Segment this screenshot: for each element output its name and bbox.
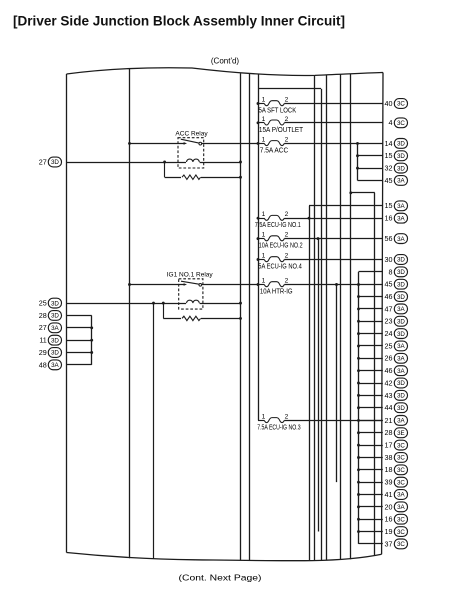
svg-text:3A: 3A (51, 325, 59, 332)
svg-text:30: 30 (385, 255, 393, 264)
svg-text:10A HTR-IG: 10A HTR-IG (260, 287, 293, 296)
fuse 10A ECU-IG NO.2 (258, 232, 303, 250)
node ACC switch on bus (128, 142, 131, 145)
pin 8 3D (right) (389, 267, 408, 277)
svg-text:16: 16 (385, 515, 393, 524)
svg-text:14: 14 (385, 139, 393, 148)
svg-text:3C: 3C (397, 467, 405, 474)
node fuse feed NO.1 (257, 217, 260, 220)
wire rung pin 15 3D (358, 155, 383, 157)
node rung 15 3D (356, 154, 359, 157)
node ACC fuse feed crossing (257, 142, 260, 145)
wire rung pin 17 3C (359, 445, 383, 447)
svg-text:3A: 3A (397, 418, 405, 425)
wire vertical mid V4 x321.1 (321, 89, 323, 561)
pin 25 3D (left) (39, 298, 62, 308)
wire ACC relay coil output (200, 162, 241, 164)
svg-text:3A: 3A (397, 343, 405, 350)
svg-text:3D: 3D (397, 141, 405, 148)
svg-text:7.5A ACC: 7.5A ACC (260, 145, 289, 154)
pin 26 3A (right) (385, 353, 408, 363)
pin 16 3C (right) (385, 514, 408, 524)
svg-text:26: 26 (385, 354, 393, 363)
node fuse feed NO.4 (257, 258, 260, 261)
pin 46 3A (right) (385, 366, 408, 376)
wire vertical mid V3 x318 (318, 239, 320, 532)
wire IG1 relay switch input (130, 284, 185, 286)
node ladder junction 43 3D (357, 394, 360, 397)
node ACC resistor to bus (239, 176, 242, 179)
svg-text:37: 37 (385, 539, 393, 548)
wire rung pin 25 3A (359, 345, 383, 347)
node IG1 coil branch (162, 302, 165, 305)
node HTR-IG fuse feed crossing (257, 283, 260, 286)
svg-text:[Driver Side Junction Block As: [Driver Side Junction Block Assembly Inn… (13, 14, 345, 29)
fuse 5A ECU-IG NO.4 (258, 253, 302, 271)
pin 48 3A (left) (39, 360, 62, 370)
wire rung pin 46 3A (359, 370, 383, 372)
wire vertical mid V2 x314.9 (pass-through) (314, 75, 316, 560)
svg-text:38: 38 (385, 453, 393, 462)
wire IG1 relay coil input (pin 25 3D) (67, 303, 187, 305)
svg-text:3D: 3D (397, 393, 405, 400)
node fuse feed SFT LOCK (257, 102, 260, 105)
node ACC coil to bus (239, 161, 242, 164)
wire ACC fuse output to pin 14 (284, 143, 383, 145)
wire jog horizontal y192.8 (351, 192, 375, 194)
svg-text:3D: 3D (397, 380, 405, 387)
pin 47 3A (right) (385, 304, 408, 314)
wire vertical mid V6 x336.5 (336, 285, 338, 483)
pin 28 3D (left) (39, 311, 62, 321)
wire left bracket bus (91, 315, 93, 364)
svg-text:3D: 3D (51, 300, 59, 307)
node pin 25 wire pass-through junction (152, 302, 155, 305)
resistor IG1 relay (182, 316, 201, 320)
svg-text:2: 2 (285, 232, 289, 239)
wire ACC resistor lead left (165, 177, 181, 179)
node ladder junction 25 3A (357, 345, 360, 348)
svg-text:3D: 3D (397, 281, 405, 288)
wire rung pin 37 3C (359, 543, 383, 545)
node ladder junction 24 3D (357, 332, 360, 335)
svg-text:3A: 3A (397, 203, 405, 210)
wire IG1 resistor lead right (201, 318, 241, 320)
wire IG1 resistor lead left (163, 318, 181, 320)
junction block outline (bottom edge, curved) (67, 553, 382, 561)
pin 42 3D (right) (385, 378, 408, 388)
node NO.2 branch V3 (317, 237, 320, 240)
svg-text:7.5A ECU-IG NO.3: 7.5A ECU-IG NO.3 (257, 422, 300, 431)
junction block outline (left edge) (66, 74, 68, 553)
wire HTR-IG output to pin 45 3D (284, 284, 383, 286)
node ladder junction 17 3C (357, 444, 360, 447)
node bracket 27 3A (90, 326, 93, 329)
wire rung pin 39 3C (359, 482, 383, 484)
svg-text:2: 2 (285, 97, 289, 104)
svg-text:3C: 3C (397, 479, 405, 486)
wire rung pin 18 3C (359, 469, 383, 471)
node IG1 resistor to bus (239, 317, 242, 320)
pin 46 3D (right) (385, 292, 408, 302)
svg-text:45: 45 (385, 280, 393, 289)
node ladder junction 38 3C (357, 456, 360, 459)
svg-text:(Cont. Next Page): (Cont. Next Page) (179, 573, 262, 583)
fuse 7.5A ACC (258, 136, 289, 154)
svg-text:3A: 3A (397, 178, 405, 185)
node ladder junction 46 3A (357, 369, 360, 372)
relay IG1 switch blade (181, 281, 199, 284)
wire pin 29 3D (67, 352, 92, 354)
svg-text:3D: 3D (397, 269, 405, 276)
pin 11 3D (left) (39, 335, 61, 345)
svg-text:1: 1 (262, 136, 266, 143)
fuse 5A SFT LOCK (258, 97, 296, 115)
svg-text:32: 32 (385, 164, 393, 173)
svg-text:27: 27 (39, 323, 47, 332)
svg-text:3D: 3D (397, 165, 405, 172)
svg-text:47: 47 (385, 304, 393, 313)
pin 18 3C (right) (385, 465, 408, 475)
svg-text:3D: 3D (397, 257, 405, 264)
pin 27 3A (left) (39, 323, 62, 333)
pin 23 3D (right) (385, 316, 408, 326)
svg-text:48: 48 (39, 360, 47, 369)
pin 15 3D (right) (385, 151, 408, 161)
svg-text:21: 21 (385, 416, 393, 425)
wire NO.4 output to pin 30 3D (284, 259, 383, 261)
wire fuse output to pin 40 (284, 103, 383, 105)
node ladder junction 42 3D (357, 382, 360, 385)
svg-text:23: 23 (385, 317, 393, 326)
wire fuse output to pin 4 (284, 122, 383, 124)
wire vertical mid V7 x340.9 (pass-through) (340, 74, 342, 560)
node ladder junction 16 3C (357, 518, 360, 521)
svg-text:3D: 3D (397, 153, 405, 160)
pin 28 3E (right) (385, 428, 408, 438)
wire rung pin 45 3A (358, 180, 383, 182)
relay ACC switch arrow (184, 142, 187, 145)
svg-text:3D: 3D (51, 313, 59, 320)
svg-text:1: 1 (262, 211, 266, 218)
wire rung pin 28 3E (359, 432, 383, 434)
node ladder junction 39 3C (357, 481, 360, 484)
wire vertical bus B3 (fuse feed bus) (258, 74, 260, 420)
wire pin 48 3A (67, 364, 92, 366)
pin 37 3C (right) (385, 539, 408, 549)
svg-text:16: 16 (385, 214, 393, 223)
node ladder junction HTR-IG row 45 3D (357, 283, 360, 286)
wire rung pin 42 3D (359, 383, 383, 385)
wire rung pin 32 3D (358, 168, 383, 170)
svg-text:42: 42 (385, 378, 393, 387)
pin 4 3C (right) (389, 118, 408, 128)
relay ACC coil (187, 159, 200, 162)
pin 40 3C (right) (385, 99, 408, 109)
svg-text:2: 2 (285, 136, 289, 143)
wire vertical right pass-through x374.8 (374, 193, 376, 556)
node ladder junction 46 3D (357, 295, 360, 298)
wire NO.3 output to pin 21 3A (284, 420, 383, 422)
wire vertical bus B2 (pass-through) (249, 74, 251, 561)
junction block outline (right edge) (382, 73, 383, 555)
svg-text:3C: 3C (397, 120, 405, 127)
pin 29 3D (left) (39, 348, 62, 358)
svg-text:3D: 3D (397, 294, 405, 301)
wire IG1 resistor branch vertical (163, 303, 165, 318)
svg-text:25: 25 (39, 299, 47, 308)
pin 38 3C (right) (385, 453, 408, 463)
wire rung pin 23 3D (359, 321, 383, 323)
wire rung pin 46 3D (359, 296, 383, 298)
svg-text:3C: 3C (397, 529, 405, 536)
wire pin 27 3A (67, 327, 92, 329)
wire rung pin 44 3D (359, 407, 383, 409)
wire rung pin 47 3A (359, 308, 383, 310)
wire top feed horizontal y88.9 (258, 88, 321, 90)
svg-text:39: 39 (385, 478, 393, 487)
junction block outline (top edge, curved) (67, 68, 384, 76)
svg-text:3D: 3D (397, 318, 405, 325)
svg-text:2: 2 (285, 278, 289, 285)
fuse 7.5A ECU-IG NO.1 (255, 211, 301, 229)
svg-text:3A: 3A (397, 492, 405, 499)
svg-text:46: 46 (385, 366, 393, 375)
wire vertical mid V5 x326.5 (pass-through) (326, 75, 328, 560)
fuse 10A HTR-IG (258, 278, 293, 296)
svg-text:7.5A ECU-IG NO.1: 7.5A ECU-IG NO.1 (255, 220, 301, 229)
svg-text:15: 15 (385, 151, 393, 160)
svg-text:2: 2 (285, 413, 289, 420)
svg-text:56: 56 (385, 234, 393, 243)
pin 19 3C (right) (385, 527, 408, 537)
node ladder junction 26 3A (357, 357, 360, 360)
svg-text:10A ECU-IG NO.2: 10A ECU-IG NO.2 (259, 241, 303, 250)
svg-text:1: 1 (262, 232, 266, 239)
svg-text:1: 1 (262, 278, 266, 285)
svg-text:3A: 3A (397, 368, 405, 375)
svg-text:20: 20 (385, 502, 393, 511)
pin 16 3A (right) (385, 213, 408, 223)
wire right ladder bus (358, 272, 360, 544)
pin 43 3D (right) (385, 390, 408, 400)
fuse 15A P/OUTLET (258, 116, 304, 134)
pin 45 3A (right) (385, 176, 408, 186)
svg-text:28: 28 (385, 428, 393, 437)
svg-text:3A: 3A (397, 504, 405, 511)
wire vertical bus (second from left, pass-through) (129, 68, 131, 558)
svg-text:5A ECU-IG NO.4: 5A ECU-IG NO.4 (258, 262, 302, 271)
wire rung pin 19 3C (359, 531, 383, 533)
svg-text:43: 43 (385, 391, 393, 400)
pin 56 3A (right) (385, 234, 408, 244)
wire rung pin 38 3C (359, 457, 383, 459)
node ladder junction 23 3D (357, 320, 360, 323)
relay IG1 switch contact (199, 283, 202, 286)
fuse 7.5A ECU-IG NO.3 (257, 413, 300, 431)
wire ACC relay switch input (130, 143, 185, 145)
wire ACC relay coil input (pin 27 3D) (67, 162, 187, 164)
svg-text:3C: 3C (397, 516, 405, 523)
wire pass-through from pin 25 wire x153.5 (153, 303, 155, 559)
wire rung pin 41 3A (359, 494, 383, 496)
svg-text:45: 45 (385, 176, 393, 185)
relay ACC switch blade (181, 139, 199, 143)
pin 14 3D (right) (385, 139, 408, 149)
pin 25 3A (right) (385, 341, 408, 351)
svg-text:2: 2 (285, 211, 289, 218)
node ladder junction 28 3E (357, 431, 360, 434)
relay IG1 coil (187, 300, 200, 303)
wire rung pin 8 3D (359, 271, 383, 273)
node NO.1 branch up (308, 217, 311, 220)
svg-text:8: 8 (389, 267, 393, 276)
node bracket 29 3D (90, 351, 93, 354)
svg-text:28: 28 (39, 311, 47, 320)
wire vertical bus B1 (relay coil return) (240, 74, 242, 561)
svg-text:3C: 3C (397, 101, 405, 108)
wire IG1 relay coil output (200, 303, 241, 305)
svg-text:11: 11 (39, 336, 46, 345)
node fuse feed P/OUTLET (257, 121, 260, 124)
wire rung pin 24 3D (359, 333, 383, 335)
svg-text:3E: 3E (397, 430, 405, 437)
node ladder junction 18 3C (357, 468, 360, 471)
svg-text:27: 27 (39, 157, 47, 166)
node ladder junction 47 3A (357, 307, 360, 310)
resistor ACC relay (182, 175, 201, 179)
svg-text:5A SFT LOCK: 5A SFT LOCK (259, 106, 297, 115)
pin 30 3D (right) (385, 255, 408, 265)
pin 24 3D (right) (385, 329, 408, 339)
node HTR-IG branch V6 (335, 283, 338, 286)
svg-text:18: 18 (385, 465, 393, 474)
wire ACC resistor lead right (201, 177, 241, 179)
svg-text:46: 46 (385, 292, 393, 301)
wire ACC output ladder bus (357, 143, 359, 180)
svg-text:3A: 3A (397, 306, 405, 313)
wire rung pin 43 3D (359, 395, 383, 397)
wire pin 28 3D (67, 315, 92, 317)
svg-text:3A: 3A (397, 236, 405, 243)
node ladder junction 19 3C (357, 530, 360, 533)
svg-text:3A: 3A (51, 362, 59, 369)
node IG1 coil to bus (239, 302, 242, 305)
svg-text:15: 15 (385, 201, 393, 210)
svg-text:3D: 3D (397, 405, 405, 412)
svg-text:17: 17 (385, 441, 393, 450)
svg-text:44: 44 (385, 403, 393, 412)
pin 41 3A (right) (385, 490, 408, 500)
wire rung pin 26 3A (359, 358, 383, 360)
svg-text:3A: 3A (397, 215, 405, 222)
svg-text:19: 19 (385, 527, 393, 536)
svg-text:29: 29 (39, 348, 47, 357)
pin 21 3A (right) (385, 416, 408, 426)
wire vertical mid V8 x350.8 (pass-through) (350, 74, 352, 559)
svg-text:3A: 3A (397, 356, 405, 363)
svg-text:2: 2 (285, 253, 289, 260)
wire ACC relay switch output (202, 143, 258, 145)
node ladder junction 44 3D (357, 406, 360, 409)
node ladder junction NO.3 row 21 3A (357, 419, 360, 422)
svg-text:1: 1 (262, 413, 266, 420)
svg-text:3C: 3C (397, 442, 405, 449)
relay ACC dashed box (178, 138, 204, 168)
pin 17 3C (right) (385, 440, 408, 450)
wire NO.2 output to pin 56 3A (284, 238, 383, 240)
pin 39 3C (right) (385, 477, 408, 487)
node ladder junction 20 3A (357, 505, 360, 508)
relay IG1 dashed box (179, 279, 203, 309)
relay ACC switch contact (199, 142, 202, 145)
svg-text:ACC Relay: ACC Relay (175, 131, 208, 138)
svg-text:(Cont'd): (Cont'd) (211, 57, 240, 66)
node ACC ladder top (356, 142, 359, 145)
node rung 32 3D (356, 167, 359, 170)
svg-text:15A P/OUTLET: 15A P/OUTLET (259, 125, 304, 134)
wire rung pin 21 3A (359, 420, 383, 422)
node IG1 switch on bus (128, 283, 131, 286)
node bracket 11 3D (90, 339, 93, 342)
wire ACC resistor branch vertical (164, 162, 166, 177)
pin 44 3D (right) (385, 403, 408, 413)
svg-text:3D: 3D (51, 159, 59, 166)
wire rung pin 20 3A (359, 506, 383, 508)
wire NO.1 branch to pin 15 3A (309, 205, 383, 207)
pin 15 3A (right) (385, 201, 408, 211)
svg-text:4: 4 (389, 118, 393, 127)
node jog junction (349, 191, 352, 194)
svg-text:3D: 3D (397, 331, 405, 338)
svg-text:40: 40 (385, 99, 393, 108)
pin 20 3A (right) (385, 502, 408, 512)
svg-text:2: 2 (285, 116, 289, 123)
wire NO.1 output to pin 16 3A (284, 218, 383, 220)
svg-text:1: 1 (262, 253, 266, 260)
svg-text:IG1 NO.1 Relay: IG1 NO.1 Relay (167, 272, 214, 279)
node ladder junction 41 3A (357, 493, 360, 496)
relay IG1 switch arrow (184, 283, 187, 286)
pin 45 3D (right) (385, 279, 408, 289)
wire pin 11 3D (67, 340, 92, 342)
pin 32 3D (right) (385, 163, 408, 173)
svg-text:41: 41 (385, 490, 393, 499)
wire vertical mid V1 x309 (309, 206, 311, 561)
node fuse feed NO.2 (257, 237, 260, 240)
wire rung pin 16 3C (359, 519, 383, 521)
svg-text:3D: 3D (51, 337, 59, 344)
svg-text:3D: 3D (51, 350, 59, 357)
svg-text:1: 1 (262, 97, 266, 104)
svg-text:3C: 3C (397, 541, 405, 548)
svg-text:24: 24 (385, 329, 393, 338)
wire IG1 relay switch output (202, 284, 258, 286)
pin 27 3D (left) (39, 157, 62, 167)
node ACC coil branch (163, 161, 166, 164)
svg-text:25: 25 (385, 341, 393, 350)
svg-text:1: 1 (262, 116, 266, 123)
svg-text:3C: 3C (397, 455, 405, 462)
